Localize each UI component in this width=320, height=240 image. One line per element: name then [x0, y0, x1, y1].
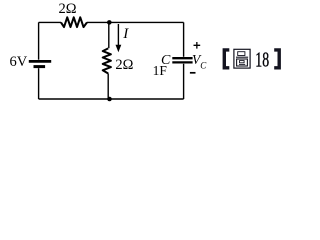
wire left rail upper: [38, 22, 40, 59]
wire right rail upper: [183, 22, 185, 56]
wire right rail lower: [183, 64, 185, 99]
capacitor C1 bottom plate: [172, 61, 192, 63]
caption right lenticular bracket: [274, 48, 281, 69]
caption left lenticular bracket: [223, 48, 230, 69]
capacitor C1 top plate: [172, 57, 192, 59]
wire bottom rail: [39, 98, 184, 100]
polarity plus sign: [194, 42, 201, 49]
node junction bottom: [107, 97, 112, 102]
svg-text:2Ω: 2Ω: [115, 57, 133, 73]
resistor R1 2ohm (top, horizontal): [61, 17, 87, 27]
wire top-left segment: [39, 21, 61, 23]
svg-text:18: 18: [255, 48, 269, 72]
svg-text:C: C: [200, 61, 207, 71]
battery V1 6V short plate: [34, 65, 46, 68]
svg-text:6V: 6V: [9, 54, 27, 70]
polarity minus sign: [190, 72, 196, 74]
battery V1 6V long plate: [29, 60, 51, 63]
caption CJK character tu (figure): [234, 49, 250, 68]
current arrow I: [117, 24, 119, 46]
wire top-right segment: [87, 21, 184, 23]
svg-text:1F: 1F: [153, 63, 168, 78]
wire middle branch lower: [107, 74, 109, 100]
wire middle branch upper: [108, 22, 110, 48]
resistor R2 2ohm (middle, vertical): [103, 48, 111, 73]
node junction top: [107, 20, 112, 25]
svg-text:2Ω: 2Ω: [58, 1, 76, 17]
svg-text:I: I: [122, 26, 129, 42]
wire left rail lower: [38, 68, 40, 99]
